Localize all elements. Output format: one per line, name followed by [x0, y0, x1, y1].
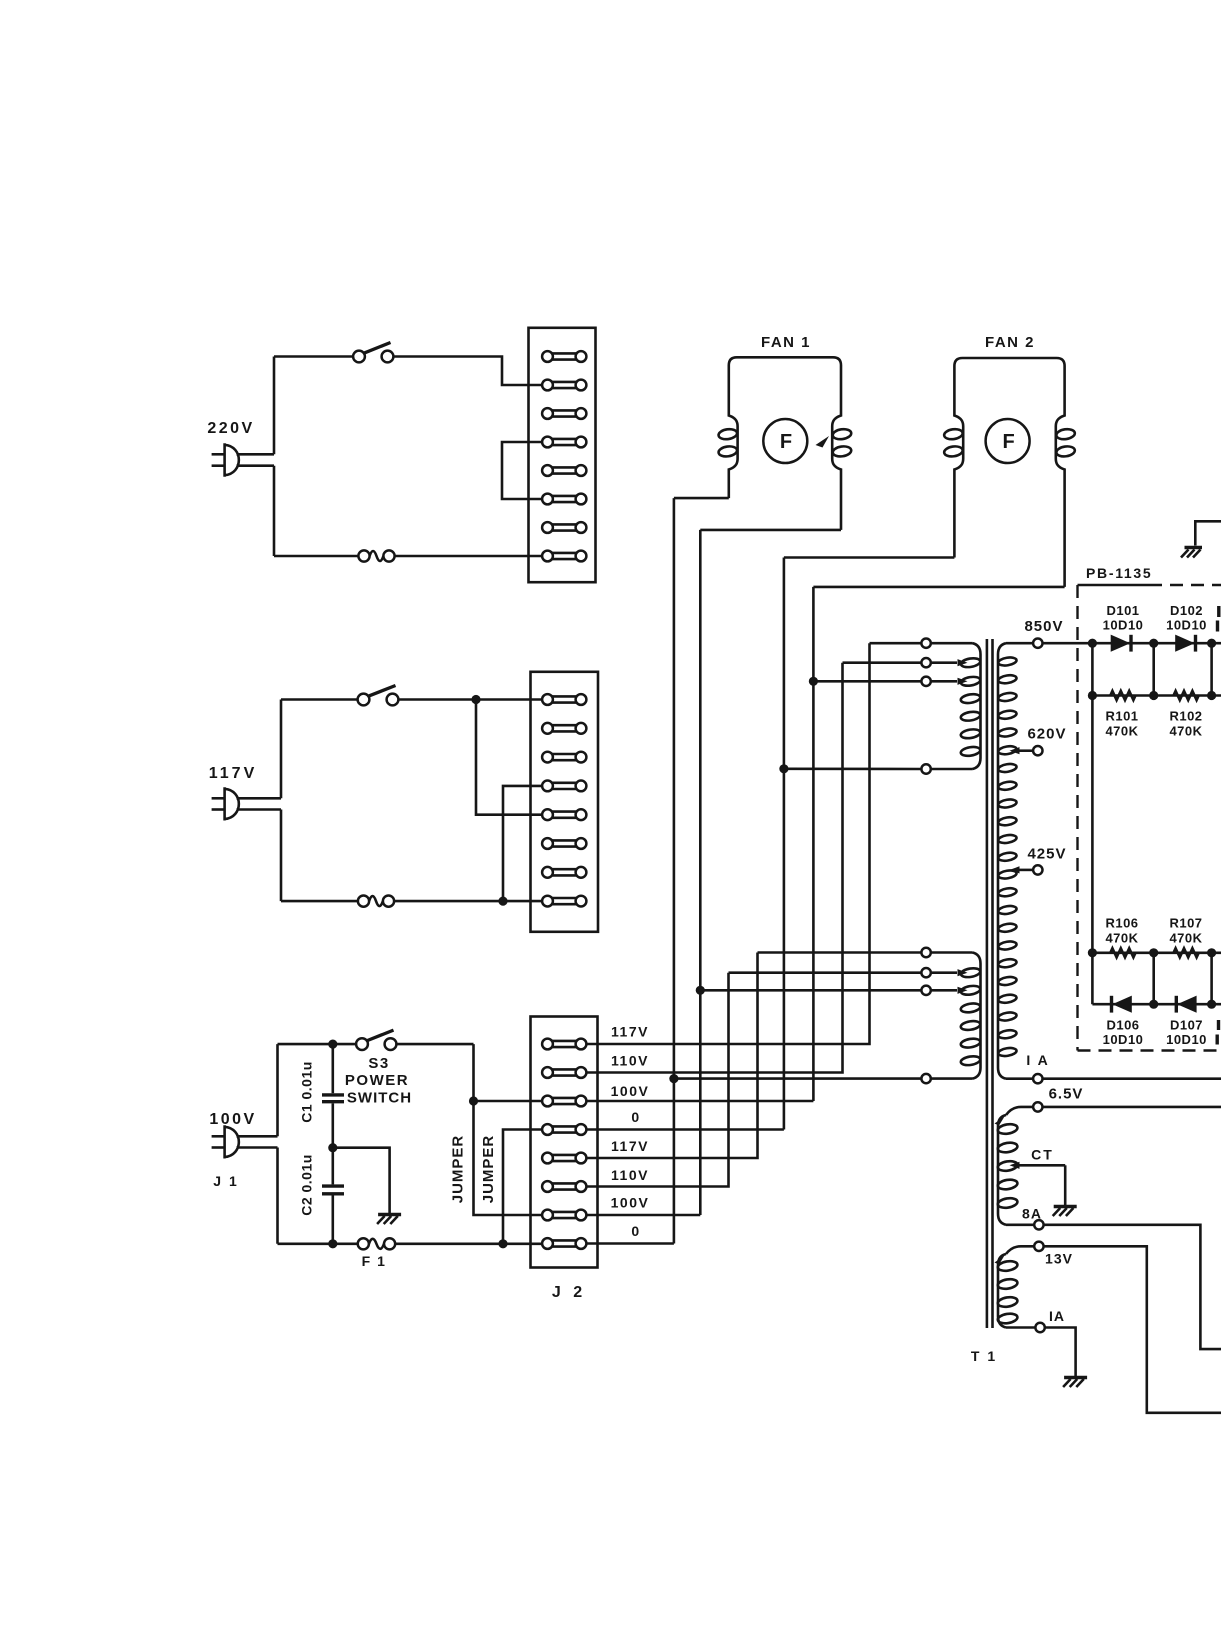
- terminal TB-117V pin 2: [542, 723, 586, 734]
- terminal J2 pin 8: [542, 1238, 586, 1249]
- svg-text:470K: 470K: [1169, 724, 1202, 739]
- ground top right: [1185, 546, 1203, 549]
- svg-text:R107: R107: [1169, 916, 1202, 931]
- transformer T1 primary winding 2: [973, 953, 981, 1079]
- wire 6.5V to right edge: [1043, 1106, 1221, 1109]
- wire 13V top lead: [1006, 1246, 1034, 1254]
- wire HV top to 850V pin: [1006, 642, 1033, 645]
- switch S3: [356, 1038, 368, 1050]
- wire 220V block jumper 4-6: [502, 442, 542, 499]
- terminal J2 pin 7: [542, 1210, 586, 1221]
- svg-text:IA: IA: [1049, 1308, 1065, 1324]
- plug P-117V: [225, 787, 239, 820]
- capacitor C1: [331, 1044, 334, 1093]
- wire D106 junction stub: [1152, 953, 1155, 1004]
- wire 1A to ground: [1045, 1328, 1076, 1377]
- ground at C1-C2: [378, 1213, 401, 1216]
- wire 117V switch to block row1: [398, 698, 543, 701]
- wire PB left rail: [1091, 643, 1094, 1004]
- wire junction to ground: [333, 1148, 390, 1214]
- resistor R102: [1174, 691, 1199, 700]
- terminal TB-117V pin 5: [542, 809, 586, 820]
- pin 850V: [1033, 639, 1042, 648]
- wire D101 junction stub: [1152, 643, 1155, 695]
- terminal TB-220V pin 5: [542, 465, 586, 476]
- wire 6.5V winding bottom lead: [1006, 1224, 1034, 1227]
- svg-text:D101: D101: [1106, 603, 1139, 618]
- svg-text:6.5V: 6.5V: [1049, 1086, 1084, 1103]
- svg-text:F: F: [1002, 431, 1014, 453]
- svg-text:F: F: [780, 431, 792, 453]
- wire 220V plug top cord: [237, 453, 275, 456]
- wire primary2 tap1 to coil: [931, 951, 973, 954]
- node F1 left junction: [328, 1239, 337, 1248]
- wire F1 to J2 row8: [395, 1243, 542, 1246]
- svg-text:10D10: 10D10: [1103, 618, 1144, 633]
- svg-text:117V: 117V: [611, 1024, 649, 1040]
- node jumper1 row3 tap: [469, 1096, 478, 1105]
- svg-text:10D10: 10D10: [1166, 1032, 1207, 1047]
- resistor R106: [1110, 948, 1135, 957]
- svg-text:R101: R101: [1105, 709, 1138, 724]
- wire primary1 tap3 arrow: [931, 680, 957, 683]
- fan motor FAN1 body: [729, 357, 841, 530]
- wire 100V top riser: [276, 1044, 279, 1136]
- svg-text:SWITCH: SWITCH: [347, 1090, 412, 1107]
- wire D102 junction stub: [1210, 643, 1213, 695]
- wire HV bottom to 1A pin: [1006, 1077, 1033, 1080]
- fan FAN1 motor circle: [763, 419, 807, 463]
- transformer T1 HV secondary winding: [998, 643, 1006, 1078]
- wire 220V switch to block: [393, 357, 542, 386]
- wire primary2 tap3 lead: [700, 989, 921, 992]
- terminal J2 pin 2: [542, 1067, 586, 1078]
- wire jumper2 row4 to row8: [503, 1130, 542, 1244]
- terminal J2 pin 5: [542, 1153, 586, 1164]
- wire bus B (FAN1-R to J2 row7): [699, 530, 702, 1215]
- terminal TB-220V pin 3: [542, 408, 586, 419]
- node R102-R103: [1207, 691, 1216, 700]
- terminal TB-220V pin 8: [542, 551, 586, 562]
- wire 220V top riser: [273, 357, 276, 455]
- wire bus E (primary1 117V to J2 row1): [586, 643, 869, 1044]
- node jumper2 to F1 wire: [498, 1239, 507, 1248]
- svg-text:R106: R106: [1105, 916, 1138, 931]
- terminal block TB-220V outline: [529, 328, 596, 582]
- wire primary2 tap1 lead: [758, 951, 922, 954]
- terminal block TB-117V outline: [531, 672, 599, 932]
- wire 220V to switch: [274, 355, 353, 358]
- node C1-C2 junction: [328, 1143, 337, 1152]
- wire 8A to right edge: [1044, 1225, 1221, 1349]
- pin 620V: [1033, 746, 1042, 755]
- wire S3 to jumper drop: [396, 1043, 474, 1046]
- plug J1: [225, 1125, 239, 1158]
- svg-text:JUMPER: JUMPER: [480, 1135, 497, 1204]
- pin primary1 tap2 (110V): [921, 658, 930, 667]
- wire FAN1 left lead: [674, 497, 729, 500]
- pin 1A (13V winding): [1035, 1323, 1044, 1332]
- transformer T1 core: [986, 639, 989, 1328]
- node R106-R107: [1149, 948, 1158, 957]
- terminal block J2 outline: [531, 1017, 598, 1268]
- terminal TB-117V pin 3: [542, 752, 586, 763]
- terminal TB-220V pin 2: [542, 380, 586, 391]
- svg-text:PB-1135: PB-1135: [1086, 565, 1152, 581]
- wire bus A (FAN1-L to J2 row8): [673, 498, 676, 1243]
- winding start arrow 6.5V: [995, 1117, 1005, 1126]
- svg-text:C2 0.01u: C2 0.01u: [299, 1154, 315, 1216]
- svg-text:425V: 425V: [1027, 846, 1066, 863]
- svg-text:F 1: F 1: [362, 1253, 387, 1269]
- wire primary2 tap4 lead: [674, 1077, 922, 1080]
- terminal TB-220V pin 6: [542, 494, 586, 505]
- svg-text:FAN 2: FAN 2: [985, 334, 1035, 351]
- wire lower equalizer rail: [1092, 951, 1221, 954]
- svg-text:S3: S3: [368, 1055, 389, 1072]
- fuse F1: [358, 1238, 369, 1249]
- ground at CT: [1054, 1205, 1077, 1208]
- wire jumper1 drop: [474, 1044, 543, 1215]
- diode D102: [1175, 635, 1195, 652]
- wire lower diode rail: [1092, 1003, 1221, 1006]
- wire 117V to fuse: [281, 900, 358, 903]
- node bus A to primary2 end: [669, 1074, 678, 1083]
- pin primary2 tap4 (0): [921, 1074, 930, 1083]
- wire primary1 tap2 arrow: [931, 661, 957, 664]
- wire 117V plug top cord: [237, 797, 282, 800]
- wire 117V tap drop to row5: [476, 700, 542, 815]
- wire J2 row3 to bus D: [586, 1100, 813, 1103]
- svg-text:10D10: 10D10: [1166, 618, 1207, 633]
- wire primary1 tap4 lead: [784, 767, 922, 770]
- node R107-R108: [1207, 948, 1216, 957]
- wire 220V to fuse: [274, 555, 359, 558]
- svg-text:470K: 470K: [1105, 724, 1138, 739]
- winding start arrow 13V: [995, 1256, 1005, 1265]
- wire primary1 tap1 lead: [870, 642, 922, 645]
- svg-text:T 1: T 1: [971, 1348, 997, 1364]
- terminal TB-220V pin 1: [542, 351, 586, 362]
- terminal TB-117V pin 8: [542, 896, 586, 907]
- wire 13V to right edge: [1044, 1246, 1221, 1413]
- wire D107 junction stub: [1210, 953, 1213, 1004]
- svg-text:100V: 100V: [611, 1195, 650, 1211]
- svg-text:117V: 117V: [209, 765, 257, 782]
- wire J2 row4 to bus C: [586, 1128, 784, 1131]
- terminal TB-117V pin 4: [542, 781, 586, 792]
- terminal J2 pin 3: [542, 1096, 586, 1107]
- switch S2: [358, 694, 370, 706]
- wire 220V fuse to block: [394, 555, 542, 558]
- wire 850V rail: [1043, 642, 1221, 645]
- node D107-D108: [1207, 1000, 1216, 1009]
- terminal TB-117V pin 6: [542, 838, 586, 849]
- terminal TB-117V pin 7: [542, 867, 586, 878]
- node bus C to primary1 end: [779, 764, 788, 773]
- wire bus H (primary2 110V to J2 row6): [586, 973, 728, 1187]
- pin primary2 tap1 (117V): [921, 948, 930, 957]
- pin 13V: [1034, 1242, 1043, 1251]
- wire 117V block jumper 4-8: [503, 786, 542, 901]
- tap 425V arrow: [1010, 866, 1020, 873]
- pin 8A: [1034, 1220, 1043, 1229]
- diode D101: [1111, 635, 1131, 652]
- wire primary2 tap2 arrow: [931, 971, 957, 974]
- plug P-220V: [225, 443, 239, 476]
- svg-text:470K: 470K: [1169, 931, 1202, 946]
- diode D106: [1110, 996, 1113, 1013]
- svg-text:D106: D106: [1106, 1018, 1139, 1033]
- wire primary2 tap2 lead: [729, 971, 922, 974]
- wire primary2 tap3 arrow: [931, 989, 957, 992]
- pin primary1 tap4 (0): [921, 764, 930, 773]
- fan FAN2 motor circle: [986, 419, 1030, 463]
- wire J1 top cord: [237, 1135, 278, 1138]
- wire primary1 tap1 to coil: [931, 642, 973, 645]
- svg-text:POWER: POWER: [345, 1072, 409, 1089]
- wire 117V bottom riser: [280, 810, 283, 902]
- node R101 left: [1088, 691, 1097, 700]
- svg-text:D102: D102: [1170, 603, 1203, 618]
- svg-text:0: 0: [631, 1223, 640, 1239]
- wire bus C (FAN2-L to J2 row4): [783, 558, 786, 1130]
- wire primary2 tap4 to coil: [931, 1077, 973, 1080]
- svg-text:J 2: J 2: [552, 1284, 586, 1301]
- wire primary1 tap4 to coil: [931, 768, 973, 771]
- switch S1: [353, 351, 365, 363]
- transformer T1 6.5V winding: [998, 1115, 1006, 1225]
- wire 117V top riser: [280, 700, 283, 799]
- terminal J2 pin 6: [542, 1181, 586, 1192]
- terminal J2 pin 4: [542, 1124, 586, 1135]
- wire 117V plug bottom cord: [237, 808, 282, 811]
- board PB-1135 dashed outline: [1078, 585, 1221, 1051]
- wire FAN1 right lead: [700, 529, 841, 532]
- fan FAN1 arrow mark: [816, 436, 830, 448]
- node C1 top junction: [328, 1040, 337, 1049]
- svg-text:220V: 220V: [207, 420, 254, 437]
- svg-text:100V: 100V: [209, 1111, 256, 1128]
- wire 117V fuse to block row8: [394, 900, 542, 903]
- node D102-D103: [1207, 639, 1216, 648]
- wire J2 row8 to bus A: [586, 1242, 674, 1245]
- tap 620V arrow: [1010, 747, 1020, 754]
- label D108 partial: [1217, 1020, 1220, 1030]
- wire riser to F1: [278, 1243, 359, 1246]
- wire FAN2 right lead: [813, 586, 1064, 589]
- wire 1A HV to right edge: [1043, 1077, 1221, 1080]
- wire bus F (primary1 110V to J2 row2): [586, 663, 842, 1073]
- svg-text:R102: R102: [1169, 709, 1202, 724]
- tap CT arrow: [1010, 1162, 1020, 1169]
- node 117V jumper to fuse wire: [498, 897, 507, 906]
- diode D107: [1175, 996, 1178, 1013]
- wire bus G (primary2 117V to J2 row5): [586, 953, 757, 1159]
- terminal J2 pin 1: [542, 1039, 586, 1050]
- node D106-D107: [1149, 1000, 1158, 1009]
- wire top-right ground lead: [1195, 521, 1221, 545]
- capacitor C2: [331, 1148, 334, 1185]
- pin 425V: [1033, 865, 1042, 874]
- svg-text:620V: 620V: [1027, 726, 1066, 743]
- wire 100V bottom riser: [276, 1148, 279, 1244]
- svg-text:117V: 117V: [611, 1138, 649, 1154]
- resistor R107: [1174, 948, 1199, 957]
- wire jumper1 to row3: [474, 1100, 543, 1103]
- node D101-D102: [1149, 639, 1158, 648]
- wire 6.5V top lead: [1006, 1107, 1033, 1115]
- svg-text:C1 0.01u: C1 0.01u: [299, 1061, 315, 1123]
- wire 13V bottom lead: [1006, 1326, 1035, 1329]
- wire J1 bottom cord: [237, 1146, 278, 1149]
- transformer T1 13V winding: [998, 1254, 1006, 1328]
- transformer T1 primary winding 1: [973, 643, 981, 769]
- svg-text:10D10: 10D10: [1103, 1032, 1144, 1047]
- wire 220V bottom riser: [273, 466, 276, 556]
- wire 100V to switch S3: [278, 1043, 357, 1046]
- wire FAN2 left lead: [784, 556, 955, 559]
- svg-text:470K: 470K: [1105, 931, 1138, 946]
- svg-text:13V: 13V: [1045, 1251, 1073, 1267]
- pin primary1 tap3 (100V): [921, 677, 930, 686]
- pin 6.5V: [1033, 1102, 1042, 1111]
- wire equalizer rail: [1092, 694, 1221, 697]
- label D103 partial: [1217, 606, 1220, 617]
- svg-text:0: 0: [631, 1109, 640, 1125]
- wire 220V plug bottom cord: [237, 464, 275, 467]
- pin primary1 tap1 (117V): [921, 639, 930, 648]
- fuse F-220V: [358, 550, 369, 561]
- pin primary2 tap2 (110V): [921, 968, 930, 977]
- wire bus D (FAN2-R to J2 row3): [812, 587, 815, 1101]
- svg-text:850V: 850V: [1024, 618, 1063, 635]
- pin primary2 tap3 (100V): [921, 986, 930, 995]
- resistor R101: [1110, 691, 1135, 700]
- svg-text:110V: 110V: [611, 1167, 649, 1183]
- ground at 1A winding: [1064, 1376, 1087, 1379]
- terminal TB-220V pin 7: [542, 522, 586, 533]
- pin 1A HV: [1033, 1074, 1042, 1083]
- node R106 left: [1088, 948, 1097, 957]
- node R101-R102: [1149, 691, 1158, 700]
- node bus D to primary1 tap: [809, 677, 818, 686]
- terminal TB-220V pin 4: [542, 437, 586, 448]
- svg-text:100V: 100V: [611, 1083, 650, 1099]
- board PB-1135 outline underline: [1078, 584, 1163, 587]
- terminal TB-117V pin 1: [542, 694, 586, 705]
- wire primary1 tap2 lead: [843, 661, 922, 664]
- node rail-D101: [1088, 639, 1097, 648]
- wire J2 row7 to bus B: [586, 1214, 700, 1217]
- wire CT to ground: [1064, 1165, 1067, 1205]
- svg-text:I A: I A: [1026, 1052, 1049, 1068]
- svg-text:FAN 1: FAN 1: [761, 334, 811, 351]
- svg-text:D107: D107: [1170, 1018, 1203, 1033]
- wire primary1 tap3 lead: [813, 680, 921, 683]
- fan motor FAN2 body: [954, 358, 1064, 587]
- fuse F-117V: [358, 896, 369, 907]
- svg-text:J 1: J 1: [213, 1173, 238, 1189]
- node bus B to primary2 tap: [696, 986, 705, 995]
- svg-text:110V: 110V: [611, 1053, 649, 1069]
- node 117V switch tap: [471, 695, 480, 704]
- wire 117V to switch: [281, 698, 358, 701]
- svg-text:CT: CT: [1031, 1147, 1054, 1163]
- svg-text:JUMPER: JUMPER: [450, 1135, 467, 1204]
